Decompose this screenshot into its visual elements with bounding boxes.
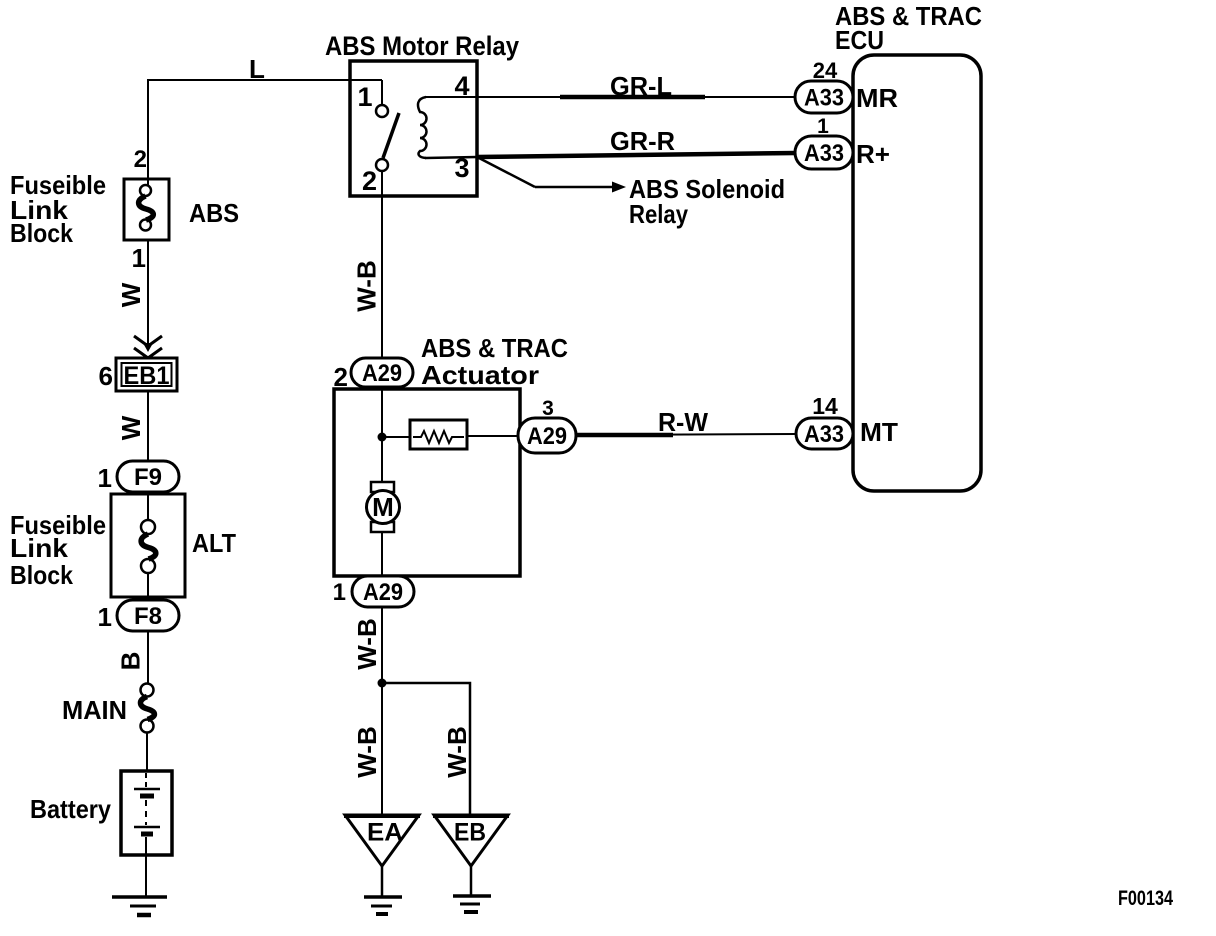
svg-text:Block: Block — [10, 218, 73, 248]
label Fuseible Link Block (lower) — [10, 510, 106, 590]
wire battery to ground — [145, 855, 147, 896]
wire EB stem — [470, 866, 473, 895]
svg-text:2: 2 — [362, 166, 377, 196]
wire GR-R to A33/R+ — [477, 153, 796, 157]
ECU box — [853, 55, 981, 491]
ground (battery) — [112, 895, 167, 899]
relay box — [350, 61, 477, 196]
ground point EB triangle — [434, 815, 508, 866]
svg-text:W-B: W-B — [352, 726, 382, 777]
svg-text:F8: F8 — [134, 603, 162, 630]
fusible link FL ABS element — [140, 185, 151, 196]
wire EA stem — [381, 866, 384, 896]
junction block EB1 — [116, 358, 177, 391]
svg-text:ABS: ABS — [189, 198, 239, 228]
svg-text:1: 1 — [357, 82, 372, 112]
svg-text:MR: MR — [856, 83, 898, 113]
wire inside ALT — [147, 492, 149, 520]
svg-text:F00134: F00134 — [1118, 887, 1173, 910]
wire from MAIN to battery — [146, 732, 148, 771]
svg-text:1: 1 — [132, 243, 146, 273]
label ABS Solenoid Relay — [629, 174, 785, 229]
wire: left rail down to fusible link ABS — [147, 80, 149, 186]
svg-text:6: 6 — [99, 361, 113, 391]
connector A29 (bottom) — [352, 576, 414, 607]
wire W-B down from A29 — [381, 607, 383, 815]
label ABS & TRAC Actuator — [421, 333, 568, 390]
wire L: battery feed horizontal top — [147, 79, 382, 81]
wire branch to EB — [382, 683, 470, 815]
svg-text:MT: MT — [860, 417, 898, 447]
svg-text:Battery: Battery — [30, 794, 111, 824]
svg-text:L: L — [249, 54, 265, 84]
svg-text:W: W — [116, 415, 146, 440]
svg-text:A29: A29 — [527, 423, 567, 450]
junction node — [378, 433, 387, 442]
actuator box — [334, 389, 520, 576]
relay switch blade — [383, 113, 399, 158]
wire pin1 into relay — [381, 80, 383, 104]
svg-text:A29: A29 — [363, 579, 403, 606]
wire GR-L to A33/MR — [477, 96, 796, 98]
svg-text:GR-L: GR-L — [610, 71, 672, 101]
svg-text:Link: Link — [10, 533, 69, 563]
wire junction to resistor — [382, 436, 412, 438]
svg-text:Actuator: Actuator — [421, 360, 539, 390]
svg-text:W: W — [116, 282, 146, 307]
connector F9 — [117, 461, 179, 492]
junction node — [378, 679, 387, 688]
label Fuseible Link Block (upper) — [10, 170, 106, 248]
svg-text:24: 24 — [813, 58, 838, 83]
svg-text:ALT: ALT — [192, 528, 236, 558]
svg-text:14: 14 — [812, 393, 838, 419]
wire resistor to A29 (right) — [467, 435, 520, 437]
connector A33 (R+) — [795, 136, 853, 169]
svg-text:MAIN: MAIN — [62, 695, 127, 725]
resistor zigzag — [413, 431, 464, 443]
svg-text:R-W: R-W — [658, 407, 708, 437]
callout arrow to ABS Solenoid Relay — [479, 158, 535, 187]
svg-text:W-B: W-B — [352, 260, 382, 311]
connector A33 (MR) — [795, 81, 853, 113]
svg-text:1: 1 — [98, 463, 112, 493]
connector A29 (top) — [351, 358, 413, 387]
relay contact circle 1 — [376, 105, 388, 117]
svg-text:ECU: ECU — [835, 25, 884, 55]
ground point EA triangle — [345, 815, 419, 866]
svg-text:B: B — [116, 652, 146, 671]
fusible link FL ABS box — [124, 179, 169, 240]
wire pin2 down — [381, 171, 383, 360]
svg-text:A33: A33 — [804, 421, 844, 448]
label ABS & TRAC ECU — [835, 1, 982, 55]
wire R-W to A33/MT — [576, 434, 797, 435]
motor M — [371, 482, 394, 492]
svg-text:F9: F9 — [134, 464, 162, 491]
svg-text:A33: A33 — [804, 140, 844, 167]
svg-text:EB1: EB1 — [124, 362, 170, 390]
svg-text:R+: R+ — [856, 139, 890, 169]
relay contact circle 2 — [376, 159, 388, 171]
wire W from EB1 to F9 — [147, 391, 149, 465]
svg-text:A33: A33 — [804, 85, 844, 112]
svg-text:2: 2 — [134, 146, 147, 173]
resistor (solenoid) box — [410, 420, 467, 449]
connector A29 (right) — [518, 418, 576, 453]
wire inside actuator down — [381, 387, 383, 578]
relay coil — [418, 97, 427, 158]
ground (EB) — [453, 894, 491, 898]
svg-text:EB: EB — [454, 819, 486, 847]
battery internals — [145, 773, 147, 787]
wire B from F8 to MAIN — [147, 631, 149, 684]
svg-text:W-B: W-B — [442, 726, 472, 777]
wire W from fusible link to connector — [147, 240, 149, 344]
svg-text:3: 3 — [454, 153, 469, 183]
svg-text:1: 1 — [98, 602, 112, 632]
svg-text:EA: EA — [367, 819, 403, 847]
svg-text:Block: Block — [10, 560, 73, 590]
svg-text:W-B: W-B — [352, 618, 382, 669]
svg-text:GR-R: GR-R — [610, 126, 675, 156]
svg-text:Relay: Relay — [629, 199, 688, 229]
connector chevrons above EB1 — [134, 336, 162, 346]
connector A33 (MT) — [796, 418, 853, 449]
fusible link FL ALT box — [111, 494, 185, 597]
fusible link FL ALT element — [141, 520, 155, 534]
svg-text:A29: A29 — [362, 360, 402, 387]
svg-text:ABS & TRAC: ABS & TRAC — [421, 333, 568, 363]
ground (EA) — [364, 895, 402, 899]
svg-text:ABS Motor Relay: ABS Motor Relay — [325, 31, 519, 61]
svg-text:4: 4 — [454, 71, 469, 101]
fusible link MAIN element — [141, 684, 154, 697]
svg-text:1: 1 — [333, 579, 346, 606]
svg-text:M: M — [372, 492, 394, 522]
connector F8 — [117, 600, 179, 631]
battery box — [121, 771, 172, 855]
